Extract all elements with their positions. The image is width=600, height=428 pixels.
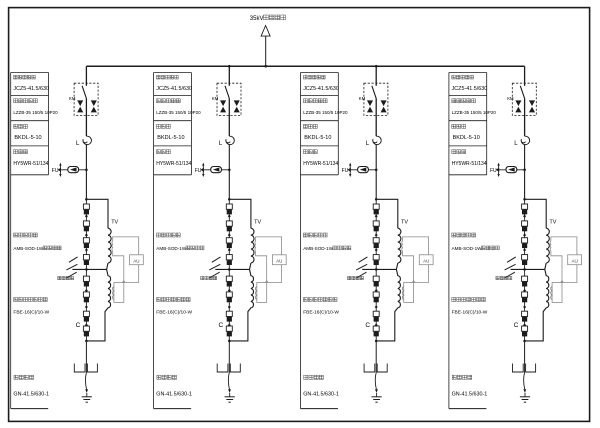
svg-text:TV: TV <box>254 220 261 226</box>
incoming line arrow <box>261 26 270 37</box>
earthing electrode hatches <box>66 257 77 278</box>
wire: arrester branch <box>350 169 376 171</box>
ground symbol <box>82 397 92 402</box>
label underline (feeder 3) <box>301 408 339 410</box>
label: current transformer name (feeder 3) <box>303 99 307 103</box>
equipment table rules (feeder 1) <box>11 73 49 175</box>
ground symbol <box>520 397 530 402</box>
wire: contactor to reactor <box>228 98 230 136</box>
label: current transformer name (feeder 4) <box>452 99 456 103</box>
secondary wire lower left <box>551 251 562 283</box>
svg-text:HY5WR-51/134: HY5WR-51/134 <box>156 161 191 167</box>
wire: main winding chain conductor lower <box>228 269 230 341</box>
secondary wire from box bottom <box>124 265 139 283</box>
wire: main winding chain conductor upper <box>524 199 526 269</box>
TV secondary winding arcs <box>254 241 257 251</box>
junction coil return <box>523 340 526 343</box>
secondary wire lower left <box>403 251 414 283</box>
equipment table rules (feeder 4) <box>449 73 487 175</box>
disconnector contact right <box>230 364 240 373</box>
label: oil-immersed arc-suppression coil name (feeder 4) <box>452 298 456 302</box>
isolating contact pair left <box>515 100 521 106</box>
svg-text:FU: FU <box>490 168 497 174</box>
svg-text:AMB-SOD-1W: AMB-SOD-1W <box>156 246 187 251</box>
svg-text:AU: AU <box>571 259 577 264</box>
svg-text:BKDL-5-10: BKDL-5-10 <box>157 135 184 141</box>
junction at arrester tap <box>228 169 231 172</box>
label: arrester name (feeder 1) <box>14 150 18 154</box>
svg-text:GN-41.5/630-1: GN-41.5/630-1 <box>452 391 488 397</box>
isolating contact pair left <box>220 100 226 106</box>
reactor L symbol <box>373 136 382 144</box>
arrow to ground <box>228 389 231 393</box>
damper box AU <box>568 255 582 265</box>
wire: TV branch top run <box>525 199 547 228</box>
junction at TV branch <box>375 198 378 201</box>
wire: coil1 lower lead <box>107 263 108 269</box>
label: arrester name (feeder 4) <box>452 150 456 154</box>
wire: arrester branch <box>499 169 525 171</box>
junction coil return <box>85 340 88 343</box>
label: vacuum breaker name (feeder 1) <box>14 75 18 79</box>
junction: feeder 3 tap <box>375 65 378 68</box>
fuse striker triangle <box>70 167 77 171</box>
coil2 secondary winding arcs <box>255 287 256 300</box>
earthing blade curve <box>228 373 229 390</box>
wire: drop from bus (feeder 3) <box>375 66 377 86</box>
label: reactor name (feeder 3) <box>303 124 307 128</box>
svg-text:HY5WR-51/134: HY5WR-51/134 <box>452 161 487 167</box>
svg-text:C: C <box>76 322 81 329</box>
disconnector contact right <box>526 364 536 373</box>
contactor KM dashed enclosure (feeder 3) <box>364 83 388 115</box>
svg-text:JCZ5-41.5/630: JCZ5-41.5/630 <box>13 86 49 92</box>
svg-text:LZZB-35 150/5 10P20: LZZB-35 150/5 10P20 <box>156 110 201 115</box>
fuse striker triangle <box>360 167 367 171</box>
coil2 secondary enclosure <box>552 283 562 303</box>
wire: neutral tap to earthing device <box>72 268 106 270</box>
secondary wire lower left <box>256 251 267 283</box>
contactor switch blade <box>372 86 376 99</box>
ground symbol <box>225 397 235 402</box>
isolating contact pair right <box>234 100 240 106</box>
fuse striker triangle <box>213 167 220 171</box>
TV secondary winding arcs <box>111 241 114 251</box>
svg-text:AU: AU <box>133 259 139 264</box>
label: reactor name (feeder 2) <box>157 124 161 128</box>
junction: incoming to bus <box>264 65 267 68</box>
coil2 secondary enclosure <box>257 283 267 303</box>
junction at arrester tap <box>523 169 526 172</box>
wire: coil1 lower lead <box>545 263 546 269</box>
label: grounding transformer name (feeder 3) <box>303 233 307 237</box>
coil2 secondary winding arcs <box>402 287 403 300</box>
junction on tap <box>523 268 526 271</box>
disconnector contact left <box>364 364 375 373</box>
wire: main winding chain conductor lower <box>375 269 377 341</box>
label: current transformer name (feeder 2) <box>157 99 161 103</box>
junction on tap <box>85 268 88 271</box>
wire: reactor to TV branch <box>375 145 377 199</box>
fuse striker triangle <box>508 167 515 171</box>
fuse FU body <box>68 167 79 173</box>
label: reactor name (feeder 4) <box>452 124 456 128</box>
wire: chain to disconnector <box>524 341 526 373</box>
svg-text:FBE-16(C)/10-W: FBE-16(C)/10-W <box>303 309 339 315</box>
svg-text:C: C <box>219 322 224 329</box>
contactor KM dashed enclosure (feeder 4) <box>512 83 536 115</box>
svg-text:FBE-16(C)/10-W: FBE-16(C)/10-W <box>452 309 488 315</box>
disconnector contact left <box>513 364 524 373</box>
wire: drop from bus (feeder 2) <box>228 66 230 86</box>
svg-text:BKDL-5-10: BKDL-5-10 <box>304 135 331 141</box>
wire: incoming drop <box>265 36 267 66</box>
label: earthing device <box>348 276 351 279</box>
wire: reactor to TV branch <box>228 145 230 199</box>
svg-text:BKDL-5-10: BKDL-5-10 <box>453 135 480 141</box>
svg-text:AMB-SOD-1W: AMB-SOD-1W <box>13 246 44 251</box>
label: disconnector name (feeder 2) <box>157 375 161 379</box>
svg-text:LZZB-35 150/5 10P20: LZZB-35 150/5 10P20 <box>13 110 58 115</box>
svg-text:C: C <box>365 322 370 329</box>
arrester electrode bar <box>59 164 61 175</box>
label: vacuum breaker name (feeder 3) <box>303 75 307 79</box>
wire: chain to disconnector <box>375 341 377 373</box>
wire: chain to disconnector <box>228 341 230 373</box>
wire: contactor to reactor <box>85 98 87 136</box>
svg-text:35kV: 35kV <box>250 16 264 22</box>
wire: main winding chain conductor upper <box>228 199 230 269</box>
label: arrester name (feeder 2) <box>157 150 161 154</box>
wire: main winding chain conductor lower <box>85 269 87 341</box>
arrow to ground <box>375 389 378 393</box>
svg-text:JCZ5-41.5/630: JCZ5-41.5/630 <box>156 86 192 92</box>
svg-text:AU: AU <box>423 259 429 264</box>
reactor L symbol <box>521 136 530 144</box>
label underline (feeder 1) <box>11 408 49 410</box>
junction: feeder 2 tap <box>228 65 231 68</box>
equipment table rules (feeder 2) <box>154 73 192 175</box>
wire: neutral tap to earthing device <box>215 268 249 270</box>
svg-text:LZZB-35 150/5 10P20: LZZB-35 150/5 10P20 <box>303 110 348 115</box>
label: disconnector name (feeder 1) <box>14 375 18 379</box>
junction at arrester tap <box>85 169 88 172</box>
label: current transformer name (feeder 1) <box>14 99 18 103</box>
svg-text:HY5WR-51/134: HY5WR-51/134 <box>13 161 48 167</box>
arrester electrode bar <box>498 164 500 175</box>
equipment table rules (feeder 3) <box>301 73 339 175</box>
arrow to ground <box>523 389 526 393</box>
grounding transformer winding segment chain (feeder 3) <box>373 204 379 336</box>
disconnector contact left <box>74 364 85 373</box>
wire: main winding chain conductor upper <box>85 199 87 269</box>
main bus <box>86 65 524 67</box>
svg-text:AMB-SOD-1W: AMB-SOD-1W <box>303 246 334 251</box>
wire: coil1 lower lead <box>250 263 251 269</box>
fuse FU body <box>506 167 517 173</box>
TV primary winding (upper coil) <box>398 228 401 263</box>
fuse FU body <box>358 167 369 173</box>
junction on tap <box>228 268 231 271</box>
isolating contact pair left <box>77 100 83 106</box>
grounding transformer winding segment chain (feeder 2) <box>226 204 232 336</box>
secondary wire to damper box <box>551 237 577 255</box>
label strip left border (feeder 1) <box>10 73 12 409</box>
isolating contact pair right <box>529 100 535 106</box>
wire: arrester branch <box>60 169 86 171</box>
arc suppression coil (lower coil) <box>525 269 549 341</box>
label underline (feeder 2) <box>154 408 192 410</box>
TV secondary winding arcs <box>549 241 552 251</box>
earthing blade curve <box>375 373 376 390</box>
svg-text:KM: KM <box>69 96 76 101</box>
label: earthing device <box>58 276 61 279</box>
label strip left border (feeder 4) <box>448 73 450 409</box>
junction hop on secondary wire <box>122 281 125 283</box>
svg-text:TV: TV <box>549 220 556 226</box>
earthing electrode hatches <box>356 257 367 278</box>
earthing electrode hatches <box>505 257 516 278</box>
svg-text:AU: AU <box>276 259 282 264</box>
label: disconnector name (feeder 3) <box>304 375 308 379</box>
arc suppression coil (lower coil) <box>229 269 253 341</box>
isolating contact pair right <box>91 100 97 106</box>
TV primary winding (upper coil) <box>108 228 111 263</box>
damper box AU <box>130 255 144 265</box>
label strip left border (feeder 2) <box>153 73 155 409</box>
wire: chain to disconnector <box>85 341 87 373</box>
arrow to ground <box>85 389 88 393</box>
wire: contactor to reactor <box>524 98 526 136</box>
ground symbol <box>372 397 382 402</box>
junction on tap <box>375 268 378 271</box>
earthing blade curve <box>85 373 86 390</box>
label: oil-immersed arc-suppression coil name (feeder 1) <box>14 298 18 302</box>
svg-text:TV: TV <box>401 220 408 226</box>
label: grounding transformer name (feeder 2) <box>157 233 161 237</box>
wire: main winding chain conductor upper <box>375 199 377 269</box>
isolating contact pair right <box>381 100 387 106</box>
svg-text:AMB-SOD-1W: AMB-SOD-1W <box>452 246 483 251</box>
TV primary winding (upper coil) <box>546 228 549 263</box>
secondary wire to damper box <box>113 237 139 255</box>
svg-text:JCZ5-41.5/630: JCZ5-41.5/630 <box>303 86 339 92</box>
svg-text:TV: TV <box>111 220 118 226</box>
svg-text:BKDL-5-10: BKDL-5-10 <box>14 135 41 141</box>
disconnector contact right <box>87 364 97 373</box>
coil2 secondary winding arcs <box>551 287 552 300</box>
wire: coil1 lower lead <box>396 263 397 269</box>
svg-text:FBE-16(C)/10-W: FBE-16(C)/10-W <box>156 309 192 315</box>
svg-text:GN-41.5/630-1: GN-41.5/630-1 <box>13 391 49 397</box>
secondary wire from box bottom <box>267 265 282 283</box>
wire: main winding chain conductor lower <box>524 269 526 341</box>
arrester electrode bar <box>349 164 351 175</box>
wire: neutral tap to earthing device <box>362 268 396 270</box>
svg-text:KM: KM <box>359 96 366 101</box>
svg-text:FU: FU <box>195 168 202 174</box>
junction hop on secondary wire <box>265 281 268 283</box>
TV secondary winding arcs <box>401 241 404 251</box>
arc suppression coil (lower coil) <box>86 269 110 341</box>
disconnector contact left <box>217 364 228 373</box>
arc suppression coil (lower coil) <box>376 269 400 341</box>
svg-text:FU: FU <box>342 168 349 174</box>
label: vacuum breaker name (feeder 2) <box>157 75 161 79</box>
svg-text:LZZB-35 150/5 10P20: LZZB-35 150/5 10P20 <box>452 110 497 115</box>
TV primary winding (upper coil) <box>251 228 254 263</box>
junction hop on secondary wire <box>561 281 564 283</box>
reactor L symbol <box>83 136 92 144</box>
junction coil return <box>228 340 231 343</box>
wire: TV branch top run <box>86 199 108 228</box>
svg-text:GN-41.5/630-1: GN-41.5/630-1 <box>303 391 339 397</box>
wire: reactor to TV branch <box>524 145 526 199</box>
grounding transformer winding segment chain (feeder 1) <box>83 204 89 336</box>
reactor L symbol <box>226 136 235 144</box>
wire: TV branch top run <box>229 199 251 228</box>
svg-text:HY5WR-51/134: HY5WR-51/134 <box>303 161 338 167</box>
svg-text:GN-41.5/630-1: GN-41.5/630-1 <box>156 391 192 397</box>
label strip left border (feeder 3) <box>300 73 302 409</box>
coil2 secondary enclosure <box>404 283 414 303</box>
wire: drop from bus (feeder 1) <box>85 66 87 86</box>
wire: TV branch top run <box>376 199 398 228</box>
coil2 secondary winding arcs <box>113 287 114 300</box>
wire: neutral tap to earthing device <box>511 268 545 270</box>
contactor KM dashed enclosure (feeder 1) <box>74 83 98 115</box>
svg-text:JCZ5-41.5/630: JCZ5-41.5/630 <box>452 86 488 92</box>
junction coil return <box>375 340 378 343</box>
secondary wire from box bottom <box>562 265 577 283</box>
label: reactor name (feeder 1) <box>14 124 18 128</box>
coil2 secondary enclosure <box>114 283 124 303</box>
label: vacuum breaker name (feeder 4) <box>452 75 456 79</box>
svg-text:KM: KM <box>212 96 219 101</box>
label: earthing device <box>201 276 204 279</box>
svg-text:FU: FU <box>52 168 59 174</box>
disconnector contact right <box>377 364 387 373</box>
contactor switch blade <box>225 86 229 99</box>
earthing electrode hatches <box>209 257 220 278</box>
label: earthing device <box>496 276 499 279</box>
wire: reactor to TV branch <box>85 145 87 199</box>
damper box AU <box>419 255 433 265</box>
grounding transformer winding segment chain (feeder 4) <box>522 204 528 336</box>
contactor KM dashed enclosure (feeder 2) <box>217 83 241 115</box>
contactor switch blade <box>82 86 86 99</box>
junction hop on secondary wire <box>412 281 415 283</box>
secondary wire to damper box <box>403 237 429 255</box>
isolating contact pair left <box>367 100 373 106</box>
label: disconnector name (feeder 4) <box>452 375 456 379</box>
wire: drop from bus (feeder 4) <box>524 66 526 86</box>
svg-text:KM: KM <box>507 96 514 101</box>
junction at TV branch <box>523 198 526 201</box>
secondary wire from box bottom <box>414 265 429 283</box>
earthing blade curve <box>524 373 525 390</box>
wire: arrester branch <box>203 169 229 171</box>
contactor switch blade <box>520 86 524 99</box>
svg-text:FBE-16(C)/10-W: FBE-16(C)/10-W <box>13 309 49 315</box>
secondary wire to damper box <box>256 237 282 255</box>
secondary wire lower left <box>113 251 124 283</box>
label: grounding transformer name (feeder 1) <box>14 233 18 237</box>
arrester electrode bar <box>202 164 204 175</box>
wire: contactor to reactor <box>375 98 377 136</box>
damper box AU <box>272 255 286 265</box>
label underline (feeder 4) <box>449 408 487 410</box>
junction at TV branch <box>85 198 88 201</box>
fuse FU body <box>211 167 222 173</box>
label: oil-immersed arc-suppression coil name (feeder 2) <box>157 298 161 302</box>
label: oil-immersed arc-suppression coil name (feeder 3) <box>303 298 307 302</box>
junction at TV branch <box>228 198 231 201</box>
svg-text:C: C <box>514 322 519 329</box>
label: arrester name (feeder 3) <box>303 150 307 154</box>
junction at arrester tap <box>375 169 378 172</box>
label: grounding transformer name (feeder 4) <box>452 233 456 237</box>
